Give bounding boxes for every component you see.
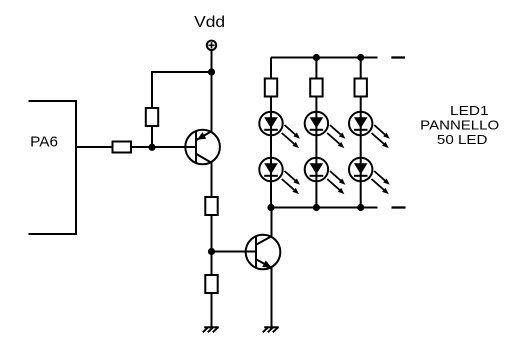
LED D12	[259, 158, 282, 181]
wire LED D12 to bottom rail	[270, 181, 272, 208]
LED panel top rail	[271, 57, 378, 59]
resistor (divider upper)	[205, 197, 217, 215]
wire top rail to resistor col2	[315, 58, 317, 79]
Vdd supply symbol	[207, 41, 216, 50]
svg-text:PA6: PA6	[30, 134, 58, 151]
connector PA6 (partial box)	[29, 101, 77, 234]
svg-text:LED1: LED1	[450, 104, 489, 118]
transistor Q2 (NPN)	[246, 235, 281, 270]
node A junction	[148, 144, 155, 151]
resistor (pull-up)	[146, 108, 158, 126]
wire lower resistor to ground	[211, 293, 213, 327]
node top-col3 junction	[357, 54, 364, 61]
LED D22	[305, 158, 328, 181]
node C junction	[208, 248, 215, 255]
resistor col2	[310, 79, 322, 97]
wire resistor to node A	[131, 146, 152, 148]
wire node A to pull-up resistor	[151, 126, 153, 148]
LED D31	[349, 112, 372, 135]
svg-text:Vdd: Vdd	[194, 14, 225, 31]
ground (left)	[204, 326, 219, 328]
transistor Q1 (PNP)	[185, 130, 220, 165]
wire node B to Q1 emitter	[211, 72, 213, 132]
resistor col1	[265, 79, 277, 97]
wire PA6 pin to series resistor	[76, 146, 113, 148]
wire Q1 collector to divider resistor	[211, 163, 213, 197]
wire LED D32 to bottom rail	[360, 181, 362, 208]
wire Vdd symbol to node B	[211, 50, 213, 72]
wire node C to Q2 base	[212, 251, 257, 253]
wire divider resistors / node C	[211, 215, 213, 275]
LED panel bottom rail	[271, 207, 378, 209]
node bottom-col2 junction	[313, 204, 320, 211]
wire resistor col3 to LED	[360, 97, 362, 113]
wire Q2 collector to LED bottom rail	[271, 208, 273, 237]
node B junction	[208, 68, 215, 75]
wire LED D22 to bottom rail	[315, 181, 317, 208]
LED D11	[259, 112, 282, 135]
wire LED D11 to LED D12	[270, 135, 272, 158]
LED D21	[305, 112, 328, 135]
wire resistor col1 to LED	[270, 97, 272, 113]
resistor col3	[355, 79, 367, 97]
svg-text:50 LED: 50 LED	[437, 133, 488, 147]
node bottom-col3 junction	[357, 204, 364, 211]
ground (right)	[264, 326, 279, 328]
wire top rail to resistor col3	[360, 58, 362, 79]
resistor (base series)	[113, 142, 132, 153]
wire pull-up resistor to Vdd rail	[152, 72, 212, 108]
wire bottom rail continuation (dash)	[392, 206, 406, 208]
LED D32	[349, 158, 372, 181]
wire resistor col2 to LED	[315, 97, 317, 113]
svg-text:PANNELLO: PANNELLO	[420, 119, 499, 133]
wire top rail continuation (dash)	[391, 56, 405, 58]
wire Q2 emitter to ground	[271, 268, 273, 327]
node bottom-col1 junction	[267, 204, 274, 211]
wire LED D21 to LED D22	[315, 135, 317, 158]
wire top rail to resistor col1	[270, 58, 272, 79]
node top-col2 junction	[313, 54, 320, 61]
wire LED D31 to LED D32	[360, 135, 362, 158]
resistor (divider lower)	[205, 275, 217, 293]
wire node A to Q1 base	[152, 146, 196, 148]
